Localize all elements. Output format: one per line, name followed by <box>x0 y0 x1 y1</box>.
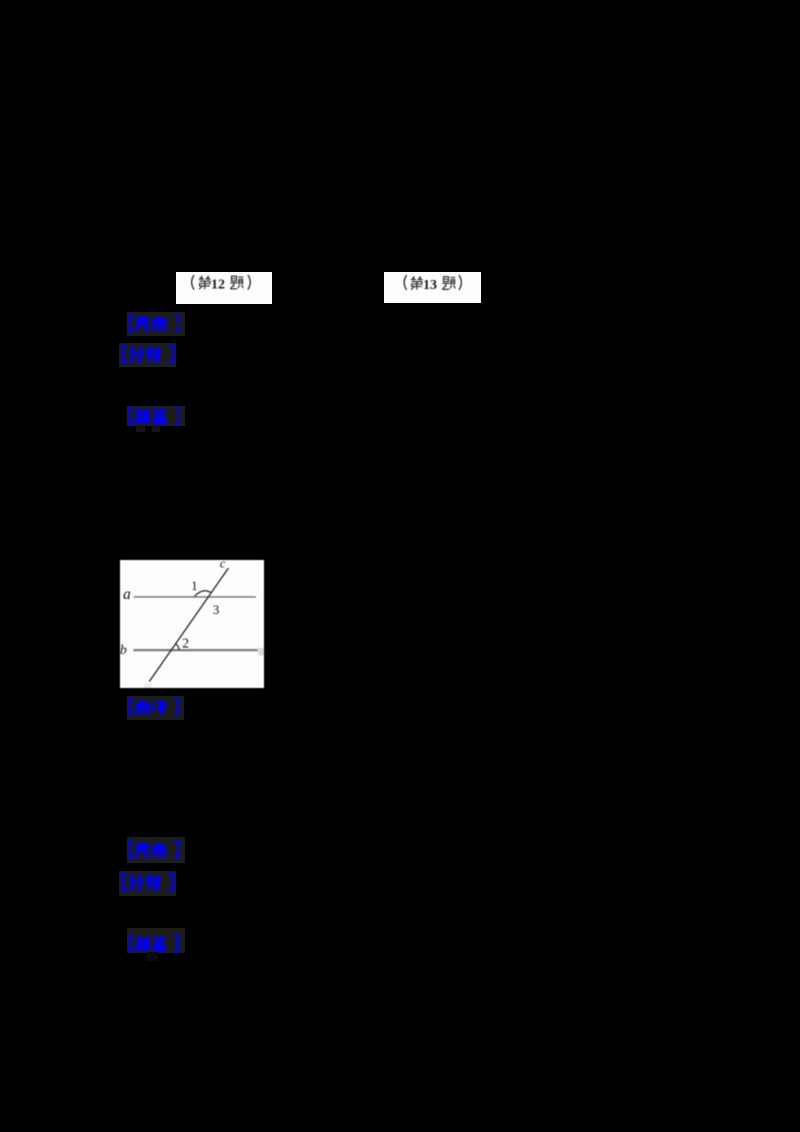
svg-text:12: 12 <box>211 277 225 292</box>
svg-text:1: 1 <box>191 579 197 593</box>
svg-text:b: b <box>120 642 127 657</box>
svg-text:c: c <box>220 560 226 570</box>
svg-text:13: 13 <box>423 277 437 292</box>
svg-text:3: 3 <box>213 602 220 617</box>
svg-text:2: 2 <box>182 636 189 651</box>
svg-text:a: a <box>123 586 131 603</box>
